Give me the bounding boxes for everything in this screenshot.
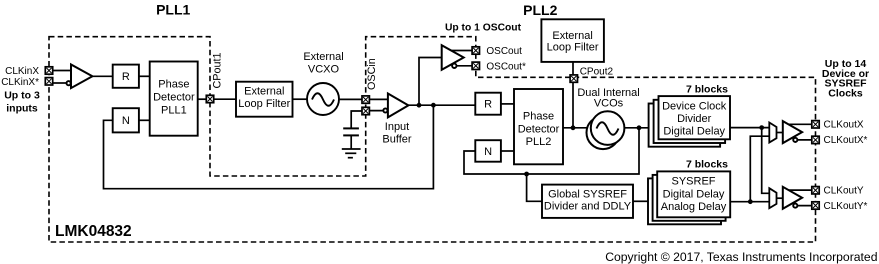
svg-text:R: R [122, 71, 130, 83]
wire R divider to phase detector PLL1 [139, 75, 150, 77]
junction dot global SYSREF branch [524, 172, 529, 177]
svg-text:CPout2: CPout2 [580, 67, 614, 78]
svg-text:CLKoutY: CLKoutY [824, 186, 864, 197]
dual internal VCOs circles [587, 116, 620, 149]
svg-text:Device Clock: Device Clock [662, 101, 727, 113]
svg-text:PLL1: PLL1 [156, 1, 190, 17]
svg-text:External: External [303, 51, 343, 63]
svg-text:Clocks: Clocks [828, 88, 863, 100]
pin CPout2 [570, 75, 577, 82]
N divider PLL1 [113, 108, 139, 132]
N divider PLL2 [475, 140, 501, 162]
ground [342, 148, 361, 150]
wire OSCin* pin to buffer inverting bubble [366, 110, 384, 112]
svg-text:VCXO: VCXO [308, 63, 340, 75]
svg-text:7 blocks: 7 blocks [686, 83, 728, 95]
svg-text:Copyright © 2017, Texas Instru: Copyright © 2017, Texas Instruments Inco… [605, 250, 877, 264]
wire output buffer Y to CLKoutY pin [786, 189, 816, 191]
svg-text:Global SYSREF: Global SYSREF [548, 188, 627, 200]
device clock divider stack (7 blocks) [649, 104, 721, 147]
wire device clock cross-route down to mux Y [762, 128, 770, 194]
svg-text:LMK04832: LMK04832 [55, 223, 132, 240]
wire buffer output bus to R divider PLL2 [408, 104, 475, 106]
svg-text:Digital Delay: Digital Delay [663, 125, 725, 137]
svg-text:Phase: Phase [158, 79, 189, 91]
svg-text:CLKoutX*: CLKoutX* [824, 135, 868, 146]
svg-text:CLKinX: CLKinX [5, 66, 39, 77]
phase detector PLL1 box [150, 62, 198, 136]
svg-text:Loop Filter: Loop Filter [547, 42, 599, 54]
pin CLKoutY* [812, 202, 819, 209]
wire OSCout buffer bubble to OSCout* pin [456, 65, 476, 67]
output mux Y (trapezoid) [769, 188, 776, 208]
pin CLKoutX* [812, 136, 819, 143]
svg-text:Analog Delay: Analog Delay [661, 201, 727, 213]
wire OSCin* pin to coupling capacitor [351, 111, 366, 128]
global SYSREF divider box [542, 185, 633, 218]
svg-text:Detector: Detector [153, 92, 195, 104]
svg-text:External: External [244, 86, 284, 98]
svg-text:CPout1: CPout1 [212, 52, 224, 88]
svg-text:inputs: inputs [6, 102, 38, 114]
wire CLKinX* pin to inverting bubble [53, 82, 67, 84]
svg-text:Divider: Divider [677, 113, 712, 125]
output buffer X (triangle) [783, 121, 802, 143]
pin CPout1 [206, 95, 213, 102]
svg-text:CLKoutX: CLKoutX [824, 120, 864, 131]
R divider PLL1 [113, 65, 139, 88]
pin CLKoutX [812, 121, 819, 128]
svg-text:OSCin: OSCin [366, 58, 378, 90]
wire OSCin pin to input buffer PLL2 [366, 98, 390, 100]
capacitor C1 (OSCin* coupling) [343, 127, 359, 129]
junction dot CPout2 node [571, 125, 576, 130]
svg-text:PLL2: PLL2 [523, 2, 557, 18]
pin OSCin* [362, 107, 369, 114]
svg-text:PLL1: PLL1 [161, 105, 187, 117]
external VCXO circle [307, 83, 339, 115]
svg-text:Loop Filter: Loop Filter [238, 98, 290, 110]
pin OSCout [472, 47, 479, 54]
junction dot VCO output branch [637, 125, 642, 130]
svg-text:R: R [484, 99, 492, 111]
pin CLKinX [45, 67, 52, 74]
svg-text:Up to 1 OSCout: Up to 1 OSCout [445, 23, 522, 34]
wire bubble X to CLKoutX* pin [797, 139, 816, 141]
phase detector PLL2 box [514, 89, 563, 164]
svg-text:Phase: Phase [523, 110, 554, 122]
svg-text:Buffer: Buffer [382, 133, 411, 145]
wire VCXO to OSCin pin [339, 98, 366, 100]
inverting bubble OSCin [383, 108, 387, 112]
wire capacitor to ground [350, 135, 352, 149]
inverting bubble X [793, 138, 797, 142]
input buffer CLKin (triangle) [71, 65, 92, 89]
svg-text:SYSREF: SYSREF [671, 176, 715, 188]
wire device clock divider to output mux X [730, 127, 769, 129]
wire input buffer to R divider PLL1 [92, 75, 113, 77]
output mux X (trapezoid) [769, 123, 776, 143]
pin OSCin [362, 96, 369, 103]
wire mux X to output buffer X [777, 132, 784, 134]
wire mux Y to output buffer Y [777, 197, 784, 199]
junction dot OSCout branch [417, 103, 422, 108]
inverting bubble OSCout [452, 64, 456, 68]
wire output buffer X to CLKoutX pin [786, 123, 816, 125]
wire CPout1 pin to external loop filter [210, 98, 236, 100]
input buffer OSCin (triangle) [388, 94, 409, 118]
wire branch up to OSCout buffer [419, 58, 442, 106]
pin CLKinX* [45, 78, 52, 85]
external loop filter PLL1 box [236, 82, 293, 117]
output buffer Y (triangle) [783, 187, 802, 209]
wire SYSREF delay to output mux Y [730, 201, 769, 203]
svg-text:N: N [122, 115, 130, 127]
R divider PLL2 [475, 93, 501, 115]
wire bubble Y to CLKoutY* pin [797, 205, 816, 207]
OSCout buffer (triangle) [442, 45, 464, 70]
inverting bubble CLKin [67, 81, 71, 85]
wire N divider PLL2 to phase detector PLL2 [501, 150, 514, 152]
inverting bubble Y [793, 204, 797, 208]
wire feedback branch down to PLL1 N divider [104, 105, 434, 189]
wire VCO output to device clock divider stack [622, 127, 649, 129]
svg-text:Digital Delay: Digital Delay [663, 188, 725, 200]
external loop filter PLL2 box [541, 19, 604, 62]
svg-text:Up to 3: Up to 3 [4, 90, 40, 102]
wire CLKinX pin to input buffer [53, 70, 71, 72]
svg-text:External: External [552, 30, 592, 42]
wire branch to global SYSREF divider [527, 174, 542, 201]
wire external loop filter 2 to CPout2 pin to VCO input [572, 62, 574, 128]
svg-text:Divider and DDLY: Divider and DDLY [544, 200, 632, 212]
svg-text:Input: Input [385, 121, 409, 133]
pin CLKoutY [812, 187, 819, 194]
svg-text:PLL2: PLL2 [526, 136, 552, 148]
wire R divider PLL2 to phase detector PLL2 [501, 103, 514, 105]
wire external loop filter to VCXO [293, 98, 308, 100]
junction dot PLL1 feedback branch [431, 103, 436, 108]
svg-text:N: N [484, 146, 492, 158]
wire phase detector PLL1 to CPout1 pin [198, 98, 210, 100]
svg-text:CLKinX*: CLKinX* [1, 77, 39, 88]
SYSREF delay stack (7 blocks) [648, 178, 721, 224]
wire N divider to phase detector PLL1 [139, 119, 150, 121]
svg-text:CLKoutY*: CLKoutY* [824, 201, 868, 212]
wire phase detector PLL2 to VCO [563, 127, 593, 129]
svg-text:OSCout*: OSCout* [486, 62, 526, 73]
svg-text:VCOs: VCOs [594, 97, 624, 109]
pin OSCout* [472, 62, 479, 69]
wire SYSREF cross-route up to mux X [750, 136, 769, 202]
svg-text:7 blocks: 7 blocks [686, 159, 728, 171]
chip outline LMK04832 (dashed boundary with external-component cutouts) [49, 37, 816, 242]
wire global SYSREF divider to SYSREF delay stack [633, 200, 648, 202]
svg-text:Detector: Detector [518, 123, 560, 135]
wire OSCout buffer to OSCout pin [448, 50, 476, 52]
junction dot device clock branch X [759, 125, 764, 130]
junction dot SYSREF branch Y [748, 199, 753, 204]
wire VCO feedback to N divider PLL2 [464, 128, 639, 174]
svg-text:OSCout: OSCout [486, 46, 522, 57]
